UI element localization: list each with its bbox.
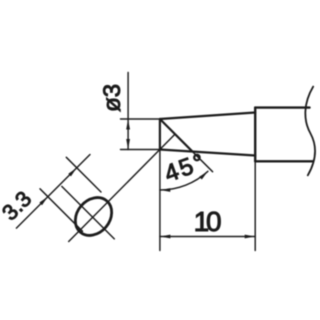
cone bottom outline: [160, 150, 255, 156]
svg-text:10: 10: [194, 206, 221, 237]
extension line E1 (lower-left tangent, 3.3 dim): [40, 189, 83, 232]
dimension line diameter 3 (vertical with leader): [127, 73, 129, 150]
arrowhead up (diameter 3 top): [126, 119, 130, 129]
arrowhead on arc left end (touches vertical extension): [160, 188, 170, 192]
arrowhead down (diameter 3 bottom): [126, 139, 130, 149]
tip face edge (vertical, left end of tip): [159, 119, 161, 150]
auxiliary view: bevel face ellipse: [68, 190, 119, 242]
svg-text:3.3: 3.3: [0, 186, 36, 225]
bevel extension line (thin, beyond cone bottom): [192, 151, 212, 171]
cone top outline: [160, 113, 255, 120]
arrowhead right (10 dim): [245, 235, 255, 239]
arrowhead on E2 crossing (points NE): [68, 168, 77, 177]
extension line bottom (for diameter 3): [121, 149, 160, 151]
arrowhead on arc right end (touches bevel extension): [199, 171, 208, 179]
minor axis line of ellipse: [62, 186, 115, 239]
centre line through bevel face (45 deg, to auxiliary view): [69, 134, 175, 241]
extension line E2 (upper-right tangent, 3.3 dim): [66, 157, 101, 192]
break line (wavy S-curve at right): [305, 87, 315, 176]
extension line below tip face (left leg of 10 dim): [159, 150, 161, 251]
extension line top (for diameter 3): [121, 118, 160, 120]
svg-text:ø3: ø3: [99, 84, 126, 112]
extension line below shank (right leg of 10 dim): [254, 161, 256, 250]
arrowhead left (10 dim): [160, 235, 170, 239]
arrowhead on E1 crossing (points NE): [39, 197, 48, 206]
bevel edge (45 deg cut): [160, 119, 192, 151]
shank bottom edge: [255, 160, 313, 162]
shank top edge: [255, 106, 309, 108]
shank left edge: [254, 108, 256, 162]
dimension line 3.3 (diagonal): [16, 155, 90, 229]
dimension line 10 (horizontal): [160, 236, 255, 238]
angle arc 45 deg: [160, 171, 208, 190]
svg-text:45°: 45°: [161, 148, 210, 188]
